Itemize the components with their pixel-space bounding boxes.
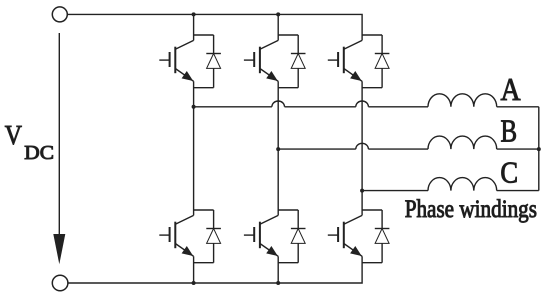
wire: phase A line — [194, 106, 428, 108]
wire: leg 2 middle (phase node B) — [277, 81, 279, 215]
terminal: DC- circle bottom-left — [52, 275, 68, 291]
wire: collector link Q5 — [362, 34, 382, 36]
wire: phase B line — [278, 148, 428, 150]
junction: node C on leg3 — [360, 189, 364, 193]
junction: top bus leg1 — [192, 12, 196, 16]
wire: emitter link Q6 — [278, 262, 298, 264]
IGBT Q2 — [328, 215, 362, 256]
diode D3 — [291, 35, 306, 88]
wire: neutral connection (right vertical) — [538, 107, 540, 191]
wire: winding B to neutral — [497, 148, 539, 150]
wire: collector link Q1 — [194, 34, 214, 36]
diode D6 — [291, 210, 306, 263]
junction: top bus leg2 — [276, 12, 280, 16]
diode D5 — [375, 35, 390, 88]
IGBT Q4 — [159, 215, 193, 256]
wire: winding A to neutral — [497, 106, 539, 108]
wire: phase C line — [362, 190, 428, 192]
wire: leg 1 top stub — [193, 14, 195, 40]
junction: node B on leg2 — [276, 147, 280, 151]
svg-text:B: B — [501, 113, 518, 149]
svg-text:C: C — [500, 155, 518, 190]
svg-text:Phase windings: Phase windings — [405, 194, 537, 223]
wire: collector link Q6 — [278, 209, 298, 211]
junction: bottom bus leg2 — [276, 281, 280, 285]
inductor: phase winding C — [428, 178, 497, 191]
wire: emitter link Q2 — [362, 262, 382, 264]
wire: leg 3 middle (phase node C) — [361, 81, 363, 215]
diode D2 — [375, 210, 390, 263]
wire: emitter link Q5 — [362, 87, 382, 89]
svg-text:V: V — [5, 119, 22, 150]
wire hop: A over leg2 — [272, 101, 285, 107]
terminal: DC+ circle top-left — [52, 7, 67, 22]
wire: bottom DC bus — [68, 256, 362, 283]
junction: node A on leg1 — [192, 105, 196, 109]
wire: emitter link Q3 — [278, 87, 298, 89]
wire hop: B over leg3 — [356, 143, 369, 149]
wire: leg 2 top stub — [277, 14, 279, 40]
wire: emitter link Q4 — [194, 262, 214, 264]
inductor: phase winding B — [428, 136, 497, 149]
wire: winding C to neutral — [497, 190, 539, 192]
IGBT Q3 — [244, 40, 278, 81]
wire: emitter link Q1 — [194, 87, 214, 89]
wire: collector link Q3 — [278, 34, 298, 36]
inductor: phase winding A — [428, 94, 497, 107]
wire: collector link Q4 — [194, 209, 214, 211]
junction: B to neutral — [537, 147, 541, 151]
wire: leg 1 middle (phase node A) — [193, 81, 195, 215]
svg-text:A: A — [501, 71, 521, 107]
junction: bottom bus leg1 — [192, 281, 196, 285]
voltage arrow V_DC (arrowhead) — [53, 234, 65, 264]
IGBT Q5 — [328, 40, 362, 81]
IGBT Q1 — [159, 40, 193, 81]
wire: collector link Q2 — [362, 209, 382, 211]
svg-text:DC: DC — [24, 142, 54, 164]
voltage arrow V_DC (line) — [58, 33, 60, 235]
wire: top DC bus — [67, 14, 362, 40]
wire: leg 1 bottom stub — [193, 256, 195, 283]
IGBT Q6 — [244, 215, 278, 256]
diode D1 — [206, 35, 221, 88]
wire hop: A over leg3 — [356, 101, 369, 107]
diode D4 — [206, 210, 221, 263]
wire: leg 2 bottom stub — [277, 256, 279, 283]
